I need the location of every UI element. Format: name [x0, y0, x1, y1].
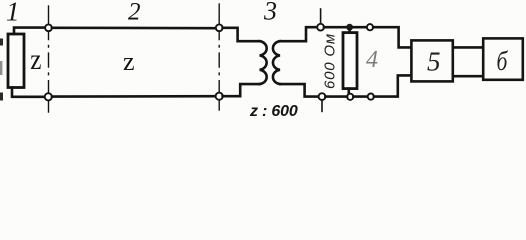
svg-text:4: 4: [366, 47, 378, 73]
svg-text:1: 1: [6, 0, 20, 27]
node plug at R4 bottom (open circle): [347, 94, 353, 100]
resistor R4 (600 Ом) body: [343, 33, 357, 89]
wire top plug to step-down: [373, 27, 411, 47]
svg-text:z: z: [123, 47, 135, 76]
wire bottom lead of resistor Z1: [12, 88, 44, 97]
node terminal top-left (open circle): [45, 24, 52, 31]
svg-text:б: б: [497, 47, 508, 77]
transformer T1 primary winding: [260, 41, 267, 84]
node plug top (open circle): [367, 24, 373, 30]
resistor R4 bottom lead: [347, 89, 350, 94]
svg-text:z : 600: z : 600: [249, 103, 298, 120]
svg-text:3: 3: [263, 0, 277, 26]
node measuring terminal top (open circle): [317, 24, 324, 31]
terminal stub below bottom measuring node: [321, 100, 323, 111]
node terminal bottom at line end (open circle): [216, 93, 223, 100]
svg-text:5: 5: [427, 47, 441, 77]
resistor Z1 (source impedance z, section 1): [8, 34, 24, 88]
wire transformer secondary bottom lead: [280, 84, 319, 97]
wire transformer primary bottom lead: [223, 84, 260, 96]
junction dot: resistor R4 top connection: [346, 24, 353, 31]
svg-text:600 Ом: 600 Ом: [322, 33, 339, 89]
wire bottom line of section 2: [52, 95, 216, 98]
node terminal top at line end (open circle): [216, 24, 223, 31]
terminal stub above top measuring node: [320, 9, 322, 24]
transformer T1 secondary winding: [273, 41, 280, 84]
node terminal bottom-left (open circle): [45, 93, 52, 100]
wire bottom from terminal to R4 plug: [325, 95, 347, 98]
svg-text:z: z: [30, 42, 41, 76]
wire transformer secondary top lead: [280, 27, 317, 41]
resistor R4 top lead: [348, 29, 351, 33]
wire top junction to plug: [353, 26, 367, 29]
svg-text:2: 2: [128, 0, 141, 26]
wire top line of section 2: [52, 26, 216, 29]
box 6: [483, 38, 523, 79]
wire top lead of resistor Z1: [14, 28, 45, 34]
box 5 (indicator unit): [411, 40, 452, 81]
wire bottom plug to step-up into box 5: [374, 75, 411, 96]
wire transformer primary top lead: [223, 28, 260, 41]
scan smudge marks at left edge: [0, 39, 3, 101]
wire box5 to box6 top: [453, 46, 483, 49]
boundary chain line B (section 2 / section 3): [218, 4, 220, 110]
boundary chain line A (section 1 / section 2): [48, 6, 50, 112]
node plug bottom right (open circle): [368, 94, 374, 100]
node measuring terminal bottom (open circle): [319, 93, 326, 100]
wire bottom R4 plug to plug 2: [353, 95, 367, 98]
wire box5 to box6 bottom: [453, 75, 483, 78]
wire top from terminal to junction: [324, 26, 346, 29]
